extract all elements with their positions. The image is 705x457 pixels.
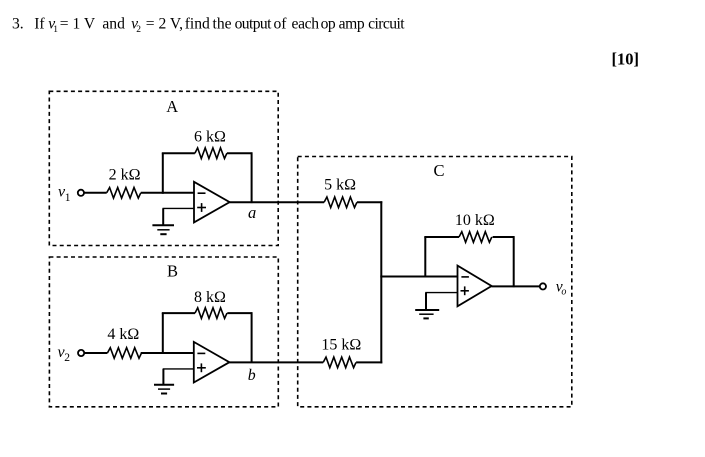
svg-text:B: B xyxy=(167,261,178,280)
wire feedback top-left A xyxy=(162,152,195,154)
wire feedback top-right B xyxy=(227,312,252,314)
svg-text:15 kΩ: 15 kΩ xyxy=(321,337,361,354)
wire feedback down C xyxy=(513,236,515,287)
svg-text:1: 1 xyxy=(65,192,71,204)
wire ground down A xyxy=(162,208,164,225)
svg-text:amp: amp xyxy=(339,15,365,32)
wire ground horizontal C xyxy=(425,292,457,294)
svg-text:If: If xyxy=(34,15,45,32)
wire v2 to resistor xyxy=(85,352,108,354)
svg-text:4 kΩ: 4 kΩ xyxy=(107,326,139,343)
svg-text:2: 2 xyxy=(136,25,141,35)
svg-text:a: a xyxy=(248,203,256,222)
dashed box C xyxy=(298,157,572,407)
resistor 4k xyxy=(107,348,141,359)
op-amp C xyxy=(458,266,492,307)
svg-text:A: A xyxy=(166,97,178,116)
title text xyxy=(12,15,405,35)
svg-text:output: output xyxy=(235,15,273,32)
resistor 5k xyxy=(324,197,357,208)
ground C xyxy=(415,310,439,318)
wire feedback top-left B xyxy=(162,312,195,314)
wire bus vertical xyxy=(380,201,382,363)
svg-text:6 kΩ: 6 kΩ xyxy=(194,128,226,145)
svg-text:o: o xyxy=(561,286,566,297)
resistor 10k xyxy=(459,232,492,243)
wire 5k to bus xyxy=(357,201,382,203)
svg-text:[10]: [10] xyxy=(612,49,640,68)
wire v1 to resistor xyxy=(85,192,107,194)
wire feedback down A xyxy=(251,152,253,203)
svg-text:C: C xyxy=(434,161,445,180)
svg-text:= 1 V: = 1 V xyxy=(60,15,96,32)
resistor 8k xyxy=(195,308,227,319)
wire feedback top-right A xyxy=(227,152,253,154)
wire junction B up xyxy=(162,313,164,354)
wire summing to op-amp C xyxy=(380,276,458,278)
terminal v2 xyxy=(58,344,85,364)
svg-text:the: the xyxy=(213,15,232,32)
dashed box B xyxy=(49,257,278,407)
svg-text:3.: 3. xyxy=(12,15,24,32)
svg-text:of: of xyxy=(274,15,288,32)
terminal v1 xyxy=(58,184,84,204)
wire junction A up xyxy=(162,153,164,194)
svg-text:= 2 V,: = 2 V, xyxy=(146,15,183,32)
op-amp B xyxy=(194,342,230,383)
svg-text:1: 1 xyxy=(53,25,58,35)
wire ground down C xyxy=(425,293,427,310)
wire feedback down B xyxy=(251,312,253,363)
wire op-amp C output xyxy=(492,285,540,287)
svg-text:5 kΩ: 5 kΩ xyxy=(324,177,356,194)
svg-text:circuit: circuit xyxy=(368,15,405,32)
svg-text:each: each xyxy=(292,15,320,32)
svg-text:2: 2 xyxy=(64,352,70,364)
svg-text:and: and xyxy=(102,15,125,32)
svg-text:2 kΩ: 2 kΩ xyxy=(109,167,141,184)
wire feedback top-right C xyxy=(493,236,515,238)
wire feedback up C xyxy=(424,237,426,278)
dashed box A xyxy=(49,91,278,245)
terminal vo xyxy=(540,279,567,298)
wire 15k to bus xyxy=(356,361,382,363)
op-amp A xyxy=(194,182,230,223)
wire ground horizontal B xyxy=(163,368,194,370)
svg-text:8 kΩ: 8 kΩ xyxy=(194,289,226,306)
ground A xyxy=(152,225,174,234)
ground B xyxy=(154,385,174,394)
wire resistor to op-amp A xyxy=(141,192,195,194)
wire feedback top-left C xyxy=(424,236,459,238)
resistor 2k xyxy=(107,188,141,199)
resistor 15k xyxy=(323,357,356,368)
svg-text:b: b xyxy=(248,367,256,384)
svg-text:10 kΩ: 10 kΩ xyxy=(455,212,495,229)
resistor 6k xyxy=(195,148,227,159)
svg-text:find: find xyxy=(185,15,210,32)
svg-text:op: op xyxy=(321,15,336,32)
wire ground horizontal A xyxy=(163,207,195,209)
wire op-amp B output to 15k xyxy=(229,361,323,363)
wire resistor to op-amp B xyxy=(141,352,195,354)
wire ground down B xyxy=(162,369,164,385)
wire op-amp A output to 5k xyxy=(230,201,325,203)
